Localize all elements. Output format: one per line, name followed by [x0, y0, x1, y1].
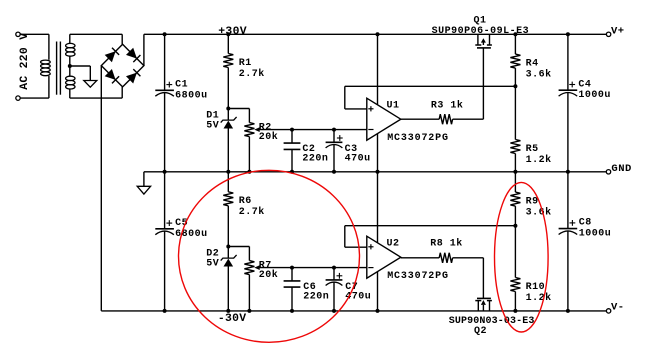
svg-text:2.7k: 2.7k	[239, 206, 265, 218]
svg-text:+30V: +30V	[218, 26, 247, 38]
svg-text:C4: C4	[578, 79, 591, 90]
svg-text:220n: 220n	[302, 153, 328, 164]
svg-text:1000u: 1000u	[578, 90, 611, 101]
svg-text:V-: V-	[611, 301, 625, 313]
svg-text:R6: R6	[239, 196, 252, 207]
svg-text:V+: V+	[611, 25, 625, 37]
svg-text:3.6k: 3.6k	[526, 68, 552, 80]
svg-text:R8 1k: R8 1k	[430, 237, 463, 249]
svg-text:R10: R10	[526, 282, 546, 293]
svg-text:Q2: Q2	[474, 326, 487, 337]
svg-text:5V: 5V	[206, 259, 219, 270]
svg-text:220n: 220n	[303, 291, 329, 302]
svg-text:C8: C8	[579, 218, 592, 229]
svg-text:R4: R4	[526, 59, 539, 70]
svg-text:SUP90N03-03-E3: SUP90N03-03-E3	[449, 316, 535, 327]
svg-text:C5: C5	[175, 218, 188, 229]
svg-text:20k: 20k	[259, 131, 279, 143]
svg-text:6800u: 6800u	[175, 90, 208, 101]
svg-text:-30V: -30V	[218, 313, 247, 325]
svg-text:MC33072PG: MC33072PG	[387, 271, 449, 282]
svg-text:R3 1k: R3 1k	[431, 99, 464, 111]
svg-text:C1: C1	[175, 79, 188, 90]
svg-text:470u: 470u	[345, 153, 371, 164]
svg-text:5V: 5V	[206, 121, 219, 132]
svg-text:1.2k: 1.2k	[526, 292, 552, 304]
svg-text:R9: R9	[526, 197, 539, 208]
svg-text:20k: 20k	[259, 269, 279, 281]
svg-text:R5: R5	[526, 144, 539, 155]
svg-text:3.6k: 3.6k	[526, 206, 552, 218]
svg-text:1000u: 1000u	[579, 229, 612, 240]
svg-text:R1: R1	[239, 58, 252, 69]
svg-text:U2: U2	[387, 238, 400, 249]
svg-text:Q1: Q1	[474, 15, 487, 26]
svg-text:1.2k: 1.2k	[526, 154, 552, 166]
svg-text:U1: U1	[387, 100, 400, 111]
svg-text:AC 220 V: AC 220 V	[19, 33, 31, 90]
svg-text:MC33072PG: MC33072PG	[387, 133, 449, 144]
svg-text:2.7k: 2.7k	[239, 68, 265, 80]
svg-text:GND: GND	[611, 163, 631, 175]
